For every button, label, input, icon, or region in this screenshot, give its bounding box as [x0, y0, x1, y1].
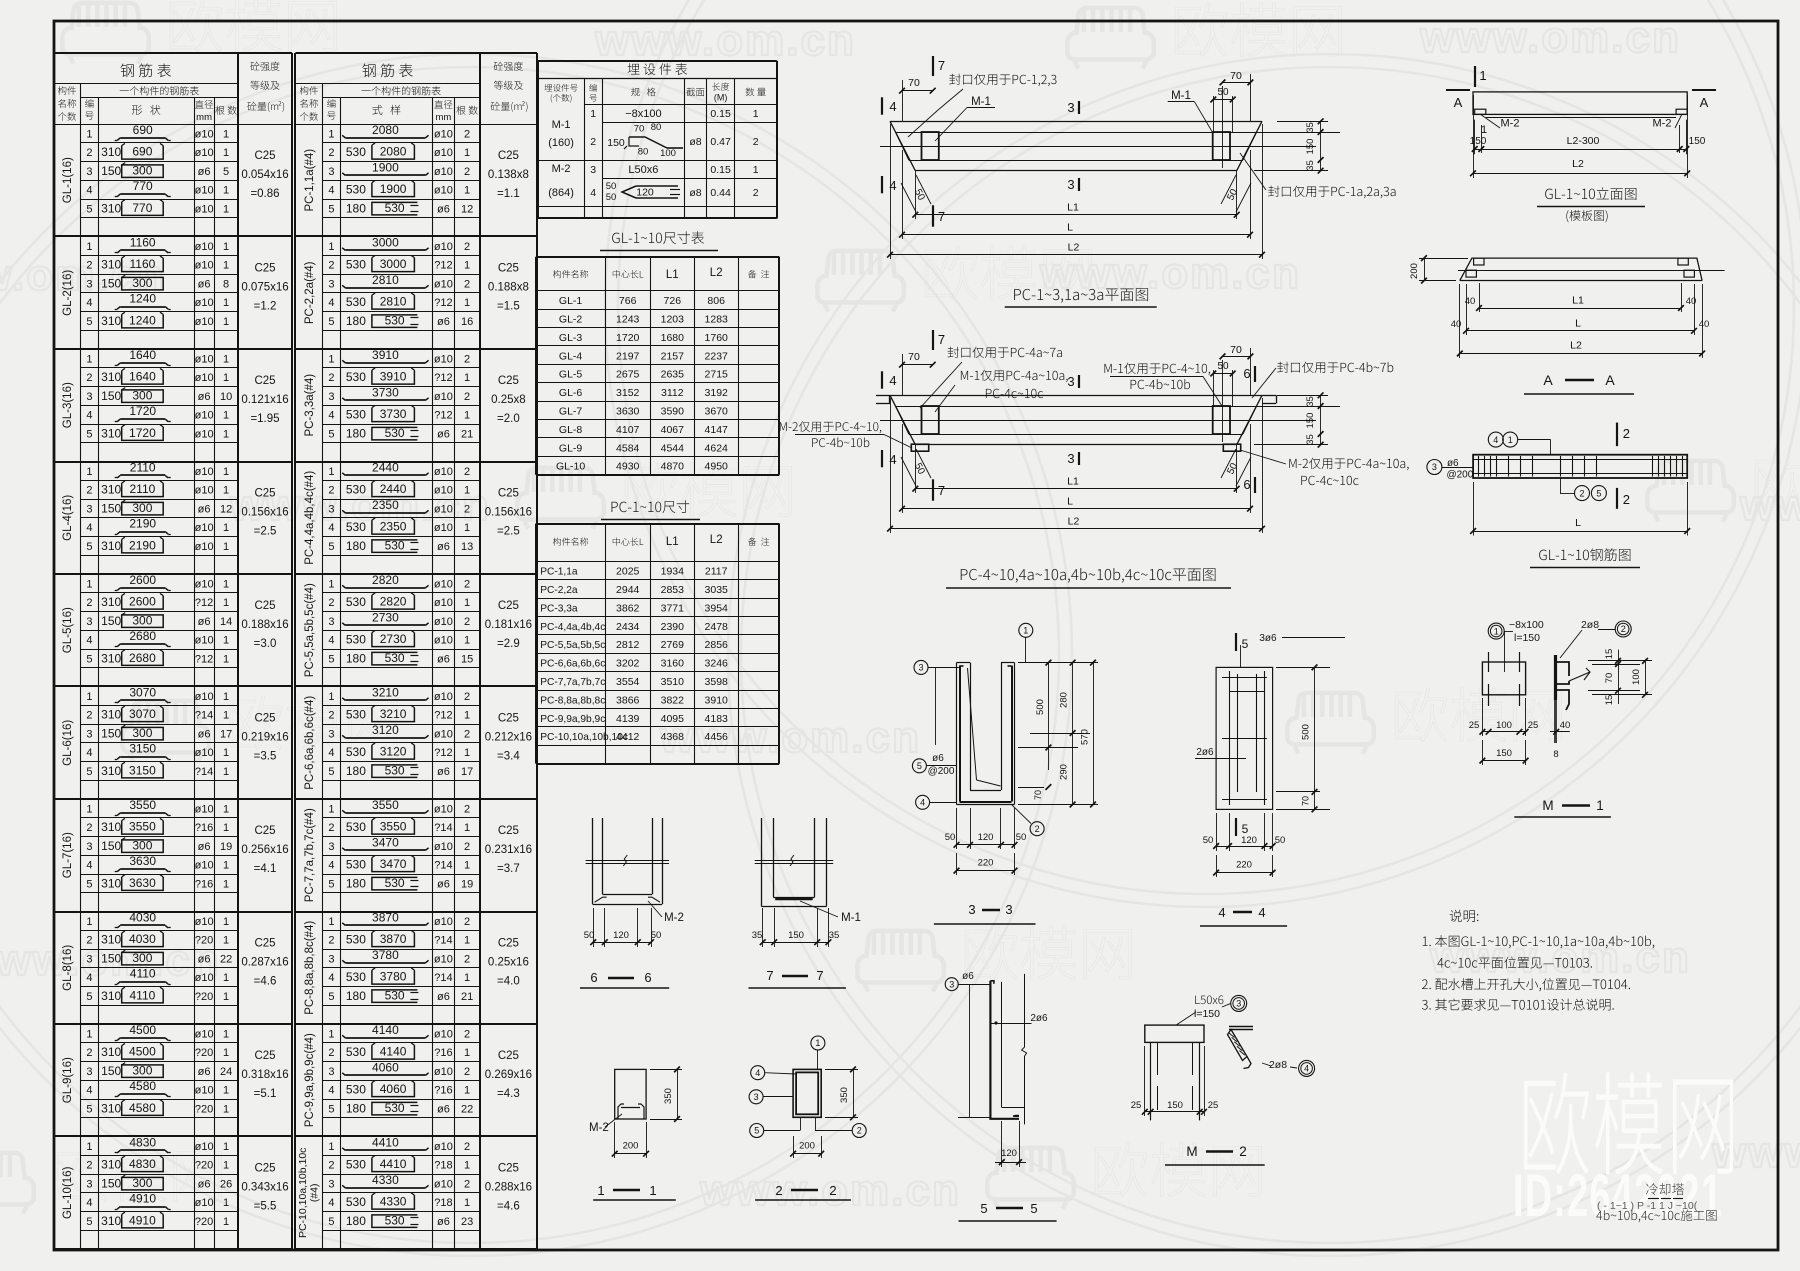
svg-text:25: 25	[1131, 1100, 1142, 1111]
svg-text:2810: 2810	[380, 295, 407, 309]
svg-text:ø10: ø10	[434, 353, 453, 365]
svg-text:1: 1	[464, 1160, 470, 1172]
svg-text:4830: 4830	[129, 1135, 156, 1149]
svg-text:3954: 3954	[705, 602, 729, 614]
svg-text:ø10: ø10	[434, 803, 453, 815]
svg-text:0.075x16: 0.075x16	[241, 282, 288, 294]
svg-text:L50x6: L50x6	[628, 164, 658, 176]
svg-text:1: 1	[223, 1160, 229, 1172]
svg-text:4950: 4950	[705, 461, 729, 473]
svg-text:2820: 2820	[380, 595, 407, 609]
svg-text:2: 2	[464, 241, 470, 253]
svg-text:4: 4	[86, 410, 92, 422]
svg-text:?12: ?12	[195, 653, 213, 665]
svg-text:?20: ?20	[195, 1047, 213, 1059]
svg-text:PC-2,2a(#4): PC-2,2a(#4)	[304, 261, 316, 324]
section 7-7	[761, 818, 763, 907]
svg-text:2810: 2810	[372, 273, 399, 287]
svg-text:350: 350	[663, 1088, 674, 1104]
svg-text:1: 1	[223, 241, 229, 253]
svg-text:A: A	[1700, 95, 1709, 110]
rebar table A (GL-1..GL-10)	[53, 53, 55, 1249]
svg-text:3: 3	[86, 841, 92, 853]
svg-text:21: 21	[461, 428, 473, 440]
svg-text:0.156x16: 0.156x16	[485, 507, 532, 519]
svg-text:1720: 1720	[129, 426, 156, 440]
svg-text:120: 120	[1241, 835, 1257, 846]
svg-text:ø10: ø10	[195, 916, 214, 928]
svg-text:766: 766	[619, 295, 637, 307]
svg-text:ø10: ø10	[434, 391, 453, 403]
section 4-4	[1216, 667, 1273, 809]
svg-text:2680: 2680	[129, 651, 156, 665]
svg-text:3: 3	[328, 278, 334, 290]
svg-text:310: 310	[101, 258, 121, 272]
svg-text:0.256x16: 0.256x16	[241, 844, 288, 856]
svg-text:70: 70	[1033, 790, 1043, 800]
svg-text:www.om.cn: www.om.cn	[594, 16, 856, 65]
svg-text:PC-1,1a(#4): PC-1,1a(#4)	[304, 149, 316, 212]
svg-text:1: 1	[223, 578, 229, 590]
svg-text:1: 1	[223, 1047, 229, 1059]
svg-text:2: 2	[464, 803, 470, 815]
svg-text:?16: ?16	[195, 822, 213, 834]
svg-text:220: 220	[1236, 860, 1252, 871]
svg-text:35: 35	[752, 930, 763, 941]
svg-text:GL-2(16): GL-2(16)	[62, 270, 74, 316]
svg-text:2: 2	[328, 710, 334, 722]
svg-text:1: 1	[223, 653, 229, 665]
svg-text:L2: L2	[1572, 158, 1584, 170]
svg-text:−8x100: −8x100	[1509, 619, 1544, 631]
svg-text:3780: 3780	[372, 948, 399, 962]
svg-text:1: 1	[86, 466, 92, 478]
svg-text:0.212x16: 0.212x16	[485, 732, 532, 744]
svg-text:3120: 3120	[372, 723, 399, 737]
svg-text:530: 530	[385, 1213, 405, 1227]
svg-text:1: 1	[223, 691, 229, 703]
svg-text:A: A	[1454, 95, 1463, 110]
svg-text:15: 15	[461, 653, 473, 665]
svg-text:1: 1	[464, 485, 470, 497]
svg-text:1: 1	[223, 147, 229, 159]
svg-text:4: 4	[590, 187, 596, 199]
svg-text:ø10: ø10	[195, 541, 214, 553]
svg-text:1: 1	[464, 597, 470, 609]
svg-text:ø6: ø6	[198, 1178, 211, 1190]
svg-text:2: 2	[86, 372, 92, 384]
svg-text:PC-8,8a,8b,8c: PC-8,8a,8b,8c	[540, 695, 605, 706]
svg-text:C25: C25	[498, 600, 519, 612]
svg-text:1: 1	[223, 1103, 229, 1115]
svg-text:2ø8: 2ø8	[1269, 1059, 1287, 1071]
svg-text:2: 2	[464, 616, 470, 628]
svg-text:=2.5: =2.5	[497, 526, 520, 538]
svg-text:7: 7	[938, 332, 945, 347]
svg-text:1240: 1240	[129, 313, 156, 327]
svg-text:ø10: ø10	[195, 260, 214, 272]
svg-text:150: 150	[101, 614, 121, 628]
GL-1~10 dimension table	[612, 231, 704, 244]
svg-text:1: 1	[464, 260, 470, 272]
svg-text:PC-5,5a,5b,5c(#4): PC-5,5a,5b,5c(#4)	[304, 583, 316, 677]
svg-text:4107: 4107	[616, 424, 640, 436]
svg-text:2: 2	[775, 1183, 782, 1198]
svg-text:70: 70	[1230, 344, 1242, 356]
svg-text:PC-7,7a,7b,7c(#4): PC-7,7a,7b,7c(#4)	[304, 808, 316, 902]
svg-text:mm: mm	[435, 112, 451, 123]
svg-text:1: 1	[328, 241, 334, 253]
svg-text:GL-7(16): GL-7(16)	[62, 832, 74, 878]
svg-text:=2.5: =2.5	[254, 526, 277, 538]
svg-text:5: 5	[980, 1201, 987, 1216]
svg-text:5: 5	[328, 991, 334, 1003]
svg-text:80: 80	[638, 147, 649, 158]
svg-text:3: 3	[328, 166, 334, 178]
svg-text:1: 1	[328, 578, 334, 590]
svg-text:PC-5,5a,5b,5c: PC-5,5a,5b,5c	[540, 640, 605, 651]
svg-text:3070: 3070	[129, 685, 156, 699]
svg-text:4: 4	[86, 1197, 92, 1209]
svg-text:3192: 3192	[705, 387, 729, 399]
svg-text:3035: 3035	[705, 584, 729, 596]
svg-text:530: 530	[346, 370, 366, 384]
svg-text:PC-4,4a,4b,4c: PC-4,4a,4b,4c	[540, 622, 605, 633]
svg-text:1: 1	[223, 1085, 229, 1097]
svg-text:5: 5	[1030, 1201, 1037, 1216]
detail M-1	[1488, 623, 1504, 639]
svg-text:2: 2	[86, 1160, 92, 1172]
svg-text:3ø6: 3ø6	[1259, 633, 1277, 644]
svg-text:1: 1	[86, 128, 92, 140]
svg-text:17: 17	[461, 766, 473, 778]
svg-text:180: 180	[346, 426, 366, 440]
svg-text:2: 2	[753, 187, 759, 199]
svg-text:1720: 1720	[616, 332, 640, 344]
svg-text:3: 3	[949, 979, 954, 989]
svg-text:2080: 2080	[380, 145, 407, 159]
svg-text:2ø6: 2ø6	[1196, 747, 1214, 758]
svg-text:1: 1	[223, 1216, 229, 1228]
svg-text:1: 1	[753, 108, 759, 120]
svg-text:50: 50	[1203, 835, 1214, 846]
svg-text:1720: 1720	[129, 404, 156, 418]
svg-text:1: 1	[464, 372, 470, 384]
svg-text:2478: 2478	[705, 621, 729, 633]
svg-text:ø10: ø10	[195, 372, 214, 384]
detail M-2	[1145, 1025, 1204, 1042]
svg-text:3: 3	[328, 728, 334, 740]
svg-text:5: 5	[328, 766, 334, 778]
svg-text:35: 35	[1305, 160, 1316, 171]
svg-text:GL-8(16): GL-8(16)	[62, 945, 74, 991]
svg-text:310: 310	[101, 539, 121, 553]
svg-text:300: 300	[132, 388, 152, 402]
svg-text:PC-10,10a,10b,10c: PC-10,10a,10b,10c	[297, 1148, 309, 1238]
svg-text:2769: 2769	[661, 639, 685, 651]
svg-text:1: 1	[223, 541, 229, 553]
svg-text:690: 690	[133, 123, 153, 137]
svg-text:3: 3	[1236, 999, 1241, 1009]
svg-text:22: 22	[220, 953, 232, 965]
svg-text:530: 530	[346, 483, 366, 497]
svg-text:(160): (160)	[548, 137, 574, 149]
svg-text:5: 5	[328, 653, 334, 665]
svg-text:PC-2,2a: PC-2,2a	[540, 585, 578, 596]
svg-text:5: 5	[86, 1216, 92, 1228]
svg-text:C25: C25	[254, 488, 275, 500]
svg-text:3: 3	[86, 278, 92, 290]
svg-text:0.138x8: 0.138x8	[488, 169, 529, 181]
svg-text:5: 5	[328, 316, 334, 328]
svg-text:=2.0: =2.0	[497, 413, 520, 425]
svg-text:3554: 3554	[616, 676, 640, 688]
svg-text:1: 1	[753, 164, 759, 176]
svg-text:ø6: ø6	[198, 391, 211, 403]
svg-text:3: 3	[590, 164, 596, 176]
svg-text:2853: 2853	[661, 584, 685, 596]
svg-text:530: 530	[385, 538, 405, 552]
svg-text:3: 3	[1067, 177, 1074, 192]
svg-text:3870: 3870	[380, 932, 407, 946]
svg-text:1240: 1240	[129, 292, 156, 306]
svg-text:3: 3	[1067, 100, 1074, 115]
svg-text:2434: 2434	[616, 621, 640, 633]
svg-text:L2: L2	[1068, 242, 1080, 254]
svg-text:4060: 4060	[372, 1060, 399, 1074]
svg-text:3000: 3000	[372, 235, 399, 249]
plan view PC-1~3,1a~3a	[890, 121, 1262, 123]
svg-text:4147: 4147	[705, 424, 729, 436]
svg-text:2025: 2025	[616, 566, 640, 578]
svg-text:50: 50	[606, 181, 617, 192]
svg-text:150: 150	[1689, 136, 1706, 147]
svg-text:PC-3,3a: PC-3,3a	[540, 603, 578, 614]
svg-text:3: 3	[328, 616, 334, 628]
svg-text:570: 570	[1080, 729, 1091, 745]
svg-text:500: 500	[1301, 724, 1312, 740]
svg-text:310: 310	[101, 1214, 121, 1228]
svg-text:530: 530	[346, 820, 366, 834]
svg-text:ø10: ø10	[434, 635, 453, 647]
svg-text:150: 150	[101, 951, 121, 965]
svg-text:ø6: ø6	[437, 428, 450, 440]
svg-text:1283: 1283	[705, 314, 729, 326]
svg-text:1: 1	[223, 972, 229, 984]
svg-text:4: 4	[86, 185, 92, 197]
svg-text:2675: 2675	[616, 369, 640, 381]
svg-text:1: 1	[328, 803, 334, 815]
svg-text:C25: C25	[498, 488, 519, 500]
svg-text:14: 14	[220, 616, 232, 628]
svg-text:3: 3	[1432, 462, 1437, 472]
svg-text:1: 1	[590, 108, 596, 120]
svg-text:1: 1	[223, 878, 229, 890]
svg-text:1: 1	[223, 1197, 229, 1209]
svg-text:150: 150	[101, 164, 121, 178]
svg-text:310: 310	[101, 1158, 121, 1172]
svg-text:?14: ?14	[434, 860, 452, 872]
svg-text:L: L	[1575, 318, 1581, 330]
svg-text:70: 70	[1230, 70, 1242, 82]
svg-text:1: 1	[328, 353, 334, 365]
svg-text:300: 300	[132, 1063, 152, 1077]
svg-text:3550: 3550	[372, 798, 399, 812]
svg-text:=4.6: =4.6	[497, 1201, 520, 1213]
svg-text:ø6: ø6	[198, 503, 211, 515]
svg-text:0.25x16: 0.25x16	[488, 957, 529, 969]
svg-text:C25: C25	[498, 1163, 519, 1175]
svg-text:4910: 4910	[129, 1213, 156, 1227]
svg-text:ø10: ø10	[434, 147, 453, 159]
svg-text:ø8: ø8	[689, 136, 701, 148]
svg-text:4: 4	[86, 972, 92, 984]
svg-text:4: 4	[328, 297, 334, 309]
svg-text:1: 1	[597, 1183, 604, 1198]
svg-text:150: 150	[101, 1064, 121, 1078]
svg-text:4910: 4910	[129, 1192, 156, 1206]
svg-text:4030: 4030	[129, 932, 156, 946]
svg-text:3: 3	[86, 953, 92, 965]
svg-text:C25: C25	[498, 150, 519, 162]
svg-text:ø6: ø6	[932, 753, 944, 764]
svg-text:150: 150	[101, 726, 121, 740]
svg-text:ø10: ø10	[195, 1085, 214, 1097]
svg-text:2190: 2190	[129, 538, 156, 552]
svg-text:0.25x8: 0.25x8	[491, 394, 526, 406]
svg-text:1: 1	[223, 185, 229, 197]
svg-text:4: 4	[328, 972, 334, 984]
svg-text:150: 150	[607, 137, 625, 149]
svg-text:50: 50	[1217, 361, 1229, 372]
svg-text:80: 80	[651, 122, 662, 133]
embedded parts table 埋设件表	[628, 63, 688, 75]
svg-text:?16: ?16	[434, 1047, 452, 1059]
svg-text:C25: C25	[498, 825, 519, 837]
svg-text:0.121x16: 0.121x16	[241, 394, 288, 406]
svg-text:4: 4	[86, 860, 92, 872]
svg-text:180: 180	[346, 989, 366, 1003]
svg-text:3202: 3202	[616, 658, 640, 670]
svg-text:180: 180	[346, 651, 366, 665]
svg-text:530: 530	[346, 933, 366, 947]
svg-text:1640: 1640	[129, 348, 156, 362]
svg-text:1: 1	[86, 691, 92, 703]
svg-text:3771: 3771	[661, 602, 685, 614]
svg-text:ø10: ø10	[195, 578, 214, 590]
svg-text:4: 4	[1304, 1064, 1309, 1074]
svg-text:ø6: ø6	[962, 971, 974, 982]
svg-text:1: 1	[223, 203, 229, 215]
svg-text:ø6: ø6	[437, 1103, 450, 1115]
svg-text:1934: 1934	[661, 566, 685, 578]
svg-text:C25: C25	[254, 825, 275, 837]
svg-text:ø10: ø10	[434, 128, 453, 140]
svg-text:C25: C25	[498, 263, 519, 275]
svg-text:ID:2642021: ID:2642021	[1513, 1162, 1723, 1229]
svg-text:=3.5: =3.5	[254, 751, 277, 763]
svg-text:4110: 4110	[130, 967, 156, 981]
svg-text:530: 530	[385, 876, 405, 890]
svg-text:2: 2	[1623, 492, 1630, 507]
svg-text:4: 4	[1493, 435, 1498, 445]
svg-text:3: 3	[86, 1066, 92, 1078]
svg-text:M-2: M-2	[552, 163, 571, 175]
svg-text:2350: 2350	[380, 520, 407, 534]
svg-text:L2: L2	[710, 267, 723, 279]
svg-text:4410: 4410	[380, 1157, 407, 1171]
svg-text:2: 2	[464, 728, 470, 740]
svg-text:ø10: ø10	[434, 728, 453, 740]
svg-text:ø10: ø10	[195, 803, 214, 815]
svg-text:ø10: ø10	[195, 203, 214, 215]
svg-text:120: 120	[1001, 1148, 1017, 1159]
svg-text:300: 300	[132, 1176, 152, 1190]
svg-text:2350: 2350	[372, 498, 399, 512]
svg-text:3: 3	[918, 663, 923, 673]
svg-text:PC-1,1a: PC-1,1a	[540, 567, 578, 578]
svg-text:3150: 3150	[129, 763, 156, 777]
svg-text:4870: 4870	[661, 461, 685, 473]
svg-text:=5.1: =5.1	[254, 1088, 277, 1100]
svg-text:www.om.cn: www.om.cn	[1429, 933, 1691, 982]
svg-text:1760: 1760	[705, 332, 729, 344]
svg-text:1: 1	[464, 710, 470, 722]
svg-text:530: 530	[385, 313, 405, 327]
svg-text:150: 150	[101, 839, 121, 853]
svg-text:5: 5	[86, 541, 92, 553]
svg-text:4: 4	[86, 635, 92, 647]
svg-text:5: 5	[86, 878, 92, 890]
svg-text:1: 1	[223, 353, 229, 365]
svg-text:?12: ?12	[434, 747, 452, 759]
svg-text:0.15: 0.15	[710, 164, 731, 176]
svg-text:ø10: ø10	[195, 128, 214, 140]
svg-text:GL-7: GL-7	[559, 406, 583, 418]
svg-text:C25: C25	[254, 375, 275, 387]
svg-text:4060: 4060	[380, 1082, 407, 1096]
svg-text:180: 180	[346, 876, 366, 890]
svg-text:?12: ?12	[195, 597, 213, 609]
svg-text:1: 1	[464, 935, 470, 947]
svg-text:310: 310	[101, 651, 121, 665]
svg-text:50: 50	[606, 192, 617, 203]
svg-text:2: 2	[86, 1047, 92, 1059]
svg-text:4368: 4368	[661, 731, 685, 743]
svg-text:70: 70	[908, 351, 920, 363]
svg-text:ø6: ø6	[437, 766, 450, 778]
svg-text:?18: ?18	[434, 1160, 452, 1172]
svg-text:2390: 2390	[661, 621, 685, 633]
svg-text:2ø8: 2ø8	[1581, 619, 1599, 631]
svg-text:24: 24	[220, 1066, 232, 1078]
svg-text:3246: 3246	[705, 658, 729, 670]
svg-text:2440: 2440	[372, 460, 399, 474]
svg-text:GL-4: GL-4	[559, 350, 583, 362]
svg-text:3: 3	[86, 616, 92, 628]
svg-text:180: 180	[346, 201, 366, 215]
svg-text:1640: 1640	[129, 370, 156, 384]
svg-text:l=150: l=150	[1514, 632, 1540, 644]
svg-text:2: 2	[464, 503, 470, 515]
svg-text:3: 3	[968, 902, 975, 917]
svg-text:530: 530	[346, 708, 366, 722]
svg-text:2: 2	[1621, 624, 1626, 634]
svg-text:6: 6	[590, 970, 597, 985]
svg-text:3: 3	[1067, 374, 1074, 389]
svg-text:ø10: ø10	[195, 241, 214, 253]
svg-text:300: 300	[132, 501, 152, 515]
